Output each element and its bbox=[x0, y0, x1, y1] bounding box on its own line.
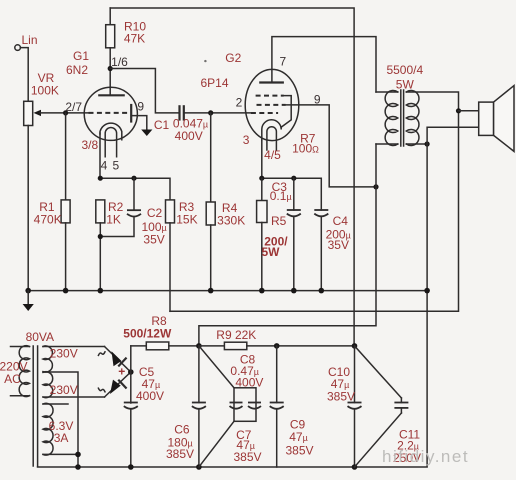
svg-text:4: 4 bbox=[101, 159, 108, 173]
node V1 lands on node B wire bbox=[352, 343, 358, 349]
node C10-rail bbox=[352, 464, 358, 470]
G1 plate bar bbox=[99, 94, 123, 96]
svg-text:230V: 230V bbox=[50, 347, 78, 361]
node speaker plus bbox=[456, 108, 461, 113]
node B+ at OT primary bottom bbox=[373, 184, 378, 189]
power transformer 230V winding lower bbox=[43, 372, 105, 398]
svg-text:3: 3 bbox=[243, 133, 250, 147]
node bus-right-end bbox=[424, 288, 430, 294]
svg-text:R9 22K: R9 22K bbox=[216, 328, 256, 342]
wire top B+ rail from R10 to V1 bbox=[110, 8, 354, 346]
G2 heater arc pins 4/5 bbox=[264, 127, 281, 162]
node C5-rail bbox=[128, 464, 134, 470]
svg-text:AC: AC bbox=[4, 372, 21, 386]
wire G1 cathode leg to R2/C2 bbox=[99, 133, 101, 178]
G2 suppressor grid g3 dashes bbox=[256, 95, 284, 97]
node junction R1/grid bbox=[63, 110, 68, 115]
node cathode-R5 bbox=[259, 176, 264, 181]
node centertap-rail bbox=[75, 464, 81, 470]
svg-text:6N2: 6N2 bbox=[66, 63, 88, 77]
svg-text:330K: 330K bbox=[217, 214, 245, 228]
svg-text:47K: 47K bbox=[124, 32, 145, 46]
wire VR wiper to G1 grid (pin 2/7) bbox=[40, 112, 89, 114]
wire pin 9 to ground bbox=[131, 116, 147, 130]
G1 cathode arc 3/8 bbox=[81, 123, 121, 152]
power transformer 80VA core bbox=[26, 330, 54, 466]
node plate 1/6 junction bbox=[108, 55, 129, 71]
resistor R8 500/12W bbox=[123, 314, 199, 350]
svg-text:2/7: 2/7 bbox=[65, 100, 82, 114]
node B after R9 bbox=[274, 343, 280, 349]
svg-text:6P14: 6P14 bbox=[200, 76, 228, 90]
capacitor C11 2.2u 250V bbox=[355, 346, 422, 467]
node secondary bottom bbox=[425, 141, 430, 146]
capacitor C7 47u 385V bbox=[233, 403, 261, 465]
svg-text:3/8: 3/8 bbox=[81, 138, 98, 152]
G2 screen grid g2 dashes pin 9 bbox=[257, 93, 321, 107]
resistor R2 1K bbox=[96, 200, 124, 291]
wire secondary bottom to ground bus and PSU rail bbox=[38, 144, 428, 467]
wire speaker plus lead bbox=[459, 110, 479, 112]
wire cathode bus to R3 bbox=[100, 178, 170, 200]
G1 heater arc pins 4,5 bbox=[101, 128, 120, 173]
triode G1 6N2 envelope bbox=[66, 49, 137, 140]
svg-text:5W: 5W bbox=[396, 78, 415, 92]
svg-text:7: 7 bbox=[279, 55, 286, 69]
svg-text:470K: 470K bbox=[34, 213, 62, 227]
wire G2 plate to OT primary top bbox=[272, 37, 376, 92]
svg-text:47µ: 47µ bbox=[289, 430, 308, 444]
G1 shield pin 9 bar bbox=[131, 100, 144, 122]
resistor R3 15K feedback bbox=[166, 200, 198, 311]
wire plate node to C1 bbox=[110, 69, 179, 113]
svg-text:hifidiy.net: hifidiy.net bbox=[382, 447, 469, 466]
node bus-R1 bbox=[63, 288, 69, 294]
ground symbol at G1 pin 9 bbox=[141, 130, 152, 137]
wire VR bottom to ground bus bbox=[27, 126, 29, 291]
svg-text:C1: C1 bbox=[154, 118, 170, 132]
ground symbol main bbox=[23, 291, 34, 311]
svg-text:1K: 1K bbox=[106, 213, 121, 227]
diode D1 upper bbox=[98, 347, 129, 372]
svg-text:5500/4: 5500/4 bbox=[386, 63, 423, 77]
capacitor C5 47u 400V bbox=[124, 365, 164, 467]
capacitor C1 0.047u 400V coupling bbox=[154, 106, 251, 143]
svg-text:400V: 400V bbox=[136, 389, 164, 403]
svg-text:R5: R5 bbox=[271, 214, 287, 228]
svg-text:3A: 3A bbox=[54, 431, 69, 445]
stray dot near G2 bbox=[204, 60, 206, 62]
node bus-VR bbox=[25, 288, 31, 294]
svg-text:35V: 35V bbox=[328, 238, 349, 252]
svg-text:385V: 385V bbox=[327, 390, 355, 404]
svg-text:4/5: 4/5 bbox=[264, 148, 281, 162]
power transformer 6.3V 3A heater winding bbox=[43, 403, 78, 455]
capacitor C3 0.1u bbox=[270, 178, 301, 290]
G2 suppressor to cathode link bbox=[281, 96, 291, 128]
node heater-centertap bbox=[75, 452, 81, 458]
svg-text:5W: 5W bbox=[262, 245, 281, 259]
ground bus bbox=[28, 290, 427, 292]
svg-text:100K: 100K bbox=[31, 84, 59, 98]
svg-text:+: + bbox=[118, 365, 125, 379]
node rectifier plus bbox=[118, 365, 133, 379]
wire rectifier riser bbox=[130, 346, 132, 403]
node bus-R5 bbox=[259, 288, 265, 294]
node bus-C3 bbox=[291, 288, 297, 294]
potentiometer VR 100K bbox=[24, 71, 59, 126]
svg-text:385V: 385V bbox=[233, 450, 261, 464]
capacitor C6 180u 385V bbox=[166, 346, 206, 467]
svg-text:100Ω: 100Ω bbox=[292, 142, 319, 156]
output transformer secondary coil bbox=[406, 91, 458, 146]
node cathode-C2 bbox=[131, 176, 136, 181]
svg-text:G1: G1 bbox=[73, 49, 89, 63]
resistor R5 200/5W bbox=[257, 178, 289, 290]
capacitor C10 47u 385V bbox=[327, 346, 362, 467]
svg-text:Lin: Lin bbox=[21, 33, 37, 47]
svg-text:2: 2 bbox=[236, 96, 243, 110]
watermark hifidiy.net bbox=[382, 447, 469, 466]
svg-text:1/6: 1/6 bbox=[111, 55, 128, 69]
svg-text:35V: 35V bbox=[143, 233, 164, 247]
node C1/R4/G2 grid junction bbox=[208, 110, 213, 115]
wire OT primary bottom to H2 bbox=[199, 144, 376, 346]
pentode G2 6P14 envelope bbox=[200, 51, 298, 141]
wire G2 cathode to R5/C3/C4 bbox=[262, 140, 322, 210]
power transformer HV center tap bbox=[43, 372, 78, 467]
svg-text:C4: C4 bbox=[333, 214, 349, 228]
node bus-C4 bbox=[319, 288, 325, 294]
node bus-R4 bbox=[208, 288, 214, 294]
svg-text:500/12W: 500/12W bbox=[123, 327, 172, 341]
resistor R4 330K bbox=[206, 113, 245, 291]
output transformer 5500/4 5W primary coil bbox=[376, 63, 423, 146]
power transformer 230V winding upper bbox=[43, 346, 105, 372]
capacitor C2 100u 35V bbox=[98, 178, 167, 246]
node cathode-R2 bbox=[98, 176, 103, 181]
svg-text:400V: 400V bbox=[235, 376, 263, 390]
output transformer core bbox=[401, 90, 404, 146]
svg-text:385V: 385V bbox=[285, 444, 313, 458]
node cathode-C3 bbox=[291, 176, 296, 181]
node Lin input terminal bbox=[15, 33, 38, 50]
svg-text:15K: 15K bbox=[176, 213, 197, 227]
node bus-R2 bbox=[98, 288, 104, 294]
resistor R10 47K bbox=[106, 8, 147, 95]
G2 cathode arc pin 3 bbox=[243, 120, 281, 147]
wire screen pin 9 to B+ node bbox=[286, 105, 376, 187]
capacitor C8 0.47u 400V bbox=[230, 353, 264, 409]
svg-text:G2: G2 bbox=[225, 51, 241, 65]
node C6-rail bbox=[196, 464, 202, 470]
svg-text:230V: 230V bbox=[50, 383, 78, 397]
diode D2 lower bbox=[98, 373, 129, 397]
svg-text:385V: 385V bbox=[166, 447, 194, 461]
capacitor C9 47u 385V bbox=[270, 346, 314, 467]
svg-text:5: 5 bbox=[112, 159, 119, 173]
svg-text:400V: 400V bbox=[175, 129, 203, 143]
speaker bbox=[479, 86, 514, 152]
node A filter B+ bbox=[196, 343, 202, 349]
wire secondary bottom to speaker minus bbox=[427, 127, 479, 144]
capacitor C7/C8 box bbox=[199, 346, 256, 467]
svg-text:C2: C2 bbox=[147, 206, 163, 220]
resistor R9 22K bbox=[199, 328, 355, 350]
G1 grid dashed line 2/7 bbox=[65, 100, 129, 114]
svg-text:0.1µ: 0.1µ bbox=[270, 189, 292, 203]
svg-text:80VA: 80VA bbox=[26, 330, 54, 344]
wire Lin to VR top bbox=[20, 48, 28, 102]
resistor R1 470K bbox=[34, 113, 70, 291]
wire feedback line H1 to speaker node bbox=[170, 111, 459, 311]
power transformer 220V primary bbox=[0, 346, 30, 397]
G2 control grid g1 dashes pin 2 bbox=[236, 96, 278, 114]
G2 plate bar pin 7 bbox=[260, 55, 286, 83]
svg-text:9: 9 bbox=[137, 100, 144, 114]
capacitor C4 200u 35V bbox=[314, 210, 351, 291]
label R7 100ohm bbox=[292, 132, 319, 156]
svg-text:C6: C6 bbox=[174, 423, 190, 437]
